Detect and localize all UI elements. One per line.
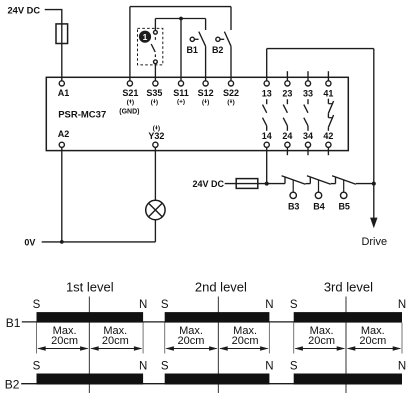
stub below terminal 34 [307,148,309,156]
switch B2 blade [224,32,231,47]
label Max. 20cm (6) [359,325,386,347]
wire output bus 13 to drive drop [267,48,374,50]
svg-text:1: 1 [143,32,148,42]
terminal 34 [305,142,310,147]
svg-text:N: N [398,361,406,373]
wire B2 drop from outer bus [230,7,232,30]
svg-text:20cm: 20cm [102,335,129,347]
terminal 41 [326,81,331,86]
stub above terminal 41 [327,71,329,81]
wire sensor bottom to S35 [154,64,156,81]
magnet bar B2 level 1 [37,374,144,385]
svg-text:S35: S35 [146,88,162,98]
svg-text:S: S [33,299,41,311]
switch B1 actuator link [194,38,198,40]
feedback switch B4 [307,176,331,199]
switch B2 actuator link [220,38,224,40]
svg-text:14: 14 [262,131,272,141]
terminal A1 [59,81,64,86]
feedback switch B5 [332,176,356,199]
fuse F2 [236,179,258,189]
junction node on inner bus above S11 [179,17,183,21]
svg-text:33: 33 [303,89,313,99]
svg-text:S: S [290,361,298,373]
stub above terminal 33 [307,71,309,81]
wire 0V rail [42,241,156,243]
svg-text:S: S [161,361,169,373]
svg-text:N: N [139,361,147,373]
terminal S12 [203,81,208,86]
svg-text:41: 41 [323,89,333,99]
relay NC contact 41-42 [328,99,333,131]
terminal 24 [285,142,290,147]
extension line left bar 3 [293,323,295,354]
svg-text:): ) [156,99,158,106]
svg-text:Drive: Drive [361,236,387,248]
svg-text:(GND): (GND) [119,109,139,116]
label Max. 20cm (4) [232,325,259,347]
junction node A2 / 0V [60,240,64,244]
terminal Y32 [153,142,158,147]
magnet bar B1 level 2 [165,312,270,323]
relay NO contact 23-24 [283,99,287,131]
svg-text:): ) [132,99,134,106]
wire lamp down to 0V [154,220,156,242]
svg-text:13: 13 [262,89,272,99]
wire 24VDC supply to fuse F1 and terminal A1 [45,10,62,81]
svg-text:S21: S21 [122,88,138,98]
wire drive drop vertical [373,49,375,219]
label Max. 20cm (3) [178,325,205,347]
wire A2 down to 0V [61,148,63,242]
svg-text:S: S [33,361,41,373]
svg-text:S: S [161,299,169,311]
svg-text:S: S [290,299,298,311]
svg-text:B2: B2 [212,45,224,55]
arrowhead to drive [370,218,377,229]
wire outer top bus S21 to B2 [130,6,231,8]
terminal 13 [264,81,269,86]
wire inner bus down to S11 [180,19,182,81]
switch B1 blade [199,32,206,47]
svg-text:Y32: Y32 [148,131,164,141]
svg-text:1st level: 1st level [66,280,114,295]
svg-text:24V DC: 24V DC [8,5,41,15]
dimension arrow 5 [294,346,345,351]
svg-text:0V: 0V [24,237,35,247]
junction node 14 / 24V feed [265,182,269,186]
svg-text:(+): (+) [177,99,185,106]
feedback switch B3 [282,176,306,199]
sensor contact top pin [154,30,158,34]
wire inner top bus sensor to B1 [155,18,205,20]
svg-text:): ) [207,99,209,106]
dimension arrow 6 [347,346,401,351]
svg-text:23: 23 [282,89,292,99]
sensor contact blade [151,44,155,52]
svg-text:20cm: 20cm [232,335,259,347]
svg-text:B1: B1 [6,316,21,330]
relay NO contact 13-14 [263,99,267,131]
svg-text:3rd level: 3rd level [324,280,373,295]
svg-text:N: N [265,299,273,311]
switch B2 actuator circle [216,37,220,41]
svg-text:PSR-MC37: PSR-MC37 [58,109,106,120]
terminal 23 [285,81,290,86]
magnet bar B2 level 2 [165,374,270,385]
label Max. 20cm (1) [51,325,78,347]
magnet bar B1 level 1 [37,312,144,323]
terminal A2 [59,142,64,147]
svg-text:S22: S22 [223,88,239,98]
sensor contact dashed link upper [154,37,156,41]
svg-text:N: N [398,299,406,311]
svg-text:20cm: 20cm [51,335,78,347]
svg-text:20cm: 20cm [359,335,386,347]
svg-text:20cm: 20cm [308,335,335,347]
indicator lamp at Y32 [146,200,165,219]
svg-text:A1: A1 [58,88,70,98]
switch B1 actuator circle [190,37,194,41]
svg-text:S12: S12 [198,88,214,98]
wire 24VDC to fuse F2 and junction [225,183,285,185]
dimension arrow 4 [219,346,268,351]
magnetic safety sensor enclosure (dashed) [138,28,163,65]
terminal 33 [305,81,310,86]
dimension arrow 2 [90,346,142,351]
dimension arrow 1 [37,346,88,351]
svg-text:N: N [265,361,273,373]
stub below terminal 42 [327,148,329,156]
svg-text:24V DC: 24V DC [193,179,225,189]
label Max. 20cm (5) [308,325,335,347]
relay NO contact 33-34 [304,99,308,131]
label Max. 20cm (2) [102,325,129,347]
magnet row B1 baseline [22,321,402,323]
level divider line 3 [345,297,347,394]
wire sensor top to inner bus [154,19,156,31]
wire terminal 13 up to output bus [266,49,268,81]
wire after B5 [356,183,374,185]
terminal S11 [178,81,183,86]
wire B1 drop from inner bus [205,19,207,31]
extension line right bar 1 [142,323,144,354]
junction node drive line / B5 [372,182,376,186]
terminal S22 [228,81,233,86]
magnet bar B2 level 3 [294,374,402,385]
extension line left bar 2 [164,323,166,354]
extension line right bar 3 [401,323,403,354]
wire terminal 14 down to 24V feed [266,148,268,184]
svg-text:B2: B2 [5,378,20,392]
terminal S21 [127,81,132,86]
relay module box PSR-MC37 [46,77,348,150]
stub below terminal 24 [286,148,288,156]
svg-text:): ) [232,99,234,106]
fuse F1 [56,24,68,44]
level divider line 2 [217,297,219,394]
wire after B4 [331,183,336,185]
wire Y32 down to lamp [154,148,156,201]
svg-text:N: N [139,299,147,311]
extension line left bar 1 [36,323,38,354]
extension line right bar 2 [268,323,270,354]
magnet row B2 baseline [21,383,402,385]
stub above terminal 23 [286,71,288,81]
svg-text:A2: A2 [58,129,70,139]
wire S21 up to outer top bus [129,7,131,81]
terminal 42 [326,142,331,147]
wire B1 to S12 [205,46,207,81]
svg-text:24: 24 [282,131,292,141]
svg-text:B3: B3 [288,201,300,211]
magnet bar B1 level 3 [294,312,402,323]
svg-text:B5: B5 [338,201,350,211]
sensor contact bottom pin [154,60,158,64]
svg-text:42: 42 [323,131,333,141]
sensor contact dashed link lower [154,54,156,58]
svg-text:B4: B4 [313,201,325,211]
wire B2 to S22 [230,46,232,81]
sensor actuator badge (1) [139,31,151,43]
svg-text:2nd level: 2nd level [195,280,247,295]
level divider line 1 [88,297,90,394]
svg-text:S11: S11 [173,88,189,98]
wire after B3 [305,183,310,185]
dimension arrow 3 [165,346,217,351]
terminal S35 [153,81,158,86]
svg-text:34: 34 [303,131,313,141]
terminal 14 [264,142,269,147]
svg-text:20cm: 20cm [178,335,205,347]
svg-text:B1: B1 [186,45,198,55]
